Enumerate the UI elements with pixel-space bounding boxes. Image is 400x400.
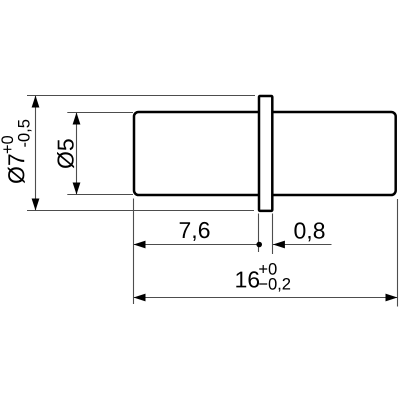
extension line bottom Ø7 xyxy=(27,210,254,212)
extension line below flange left xyxy=(258,214,260,253)
extension line below body right xyxy=(397,199,399,307)
dimension line Ø7 xyxy=(35,96,37,211)
extension line below body left xyxy=(133,199,135,305)
label Ø5 xyxy=(57,139,74,168)
dimension line Ø5 xyxy=(76,113,78,195)
extension line bottom Ø5 xyxy=(67,194,133,196)
extension line top Ø7 xyxy=(27,95,255,97)
label 7,6 xyxy=(180,222,210,241)
label 16 +0/-0,2 xyxy=(236,263,290,292)
dimension line 0,8 (arrow outside) xyxy=(273,244,332,246)
extension line below flange right xyxy=(272,214,274,255)
dimension line 7,6 xyxy=(134,244,260,246)
body (pin) xyxy=(134,112,396,195)
label 0,8 xyxy=(294,222,324,241)
extension line top Ø5 xyxy=(67,112,133,114)
label Ø7 +0/-0,5 xyxy=(1,120,31,183)
flange (collar) xyxy=(259,96,272,211)
dimension line 16 xyxy=(134,297,398,299)
